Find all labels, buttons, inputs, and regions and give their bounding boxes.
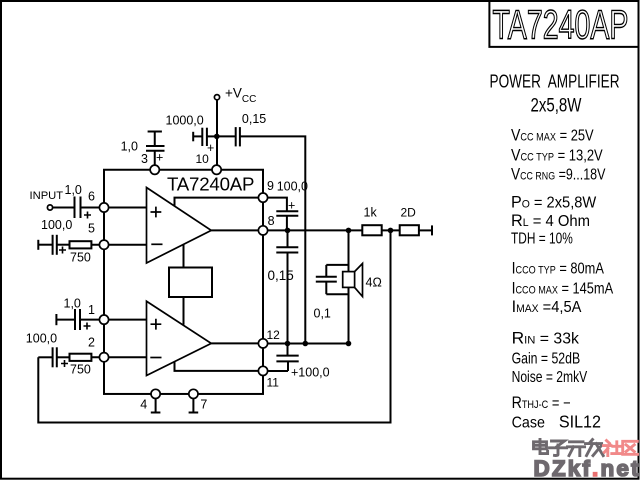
svg-text:2x5,8W: 2x5,8W — [531, 94, 582, 116]
svg-text:Noise = 2mkV: Noise = 2mkV — [512, 368, 588, 386]
svg-text:+: + — [288, 199, 295, 213]
svg-text:INPUT: INPUT — [30, 190, 64, 202]
svg-text:0,1: 0,1 — [314, 306, 331, 320]
svg-text:7: 7 — [200, 398, 207, 412]
svg-text:TA7240AP: TA7240AP — [167, 174, 255, 195]
svg-text:4Ω: 4Ω — [366, 275, 382, 289]
svg-text:0,15: 0,15 — [268, 268, 294, 283]
svg-text:VCC TYP = 13,2V: VCC TYP = 13,2V — [511, 147, 603, 165]
svg-text:2: 2 — [88, 336, 95, 350]
svg-text:Gain = 52dB: Gain = 52dB — [512, 349, 581, 367]
svg-text:9: 9 — [267, 179, 274, 193]
svg-text:0,15: 0,15 — [242, 112, 266, 126]
svg-text:VCC MAX = 25V: VCC MAX = 25V — [511, 126, 594, 144]
svg-text:1,0: 1,0 — [64, 297, 81, 311]
svg-text:2D: 2D — [401, 206, 417, 220]
svg-text:6: 6 — [88, 190, 95, 204]
svg-text:12: 12 — [267, 328, 281, 342]
svg-text:100,0: 100,0 — [277, 180, 308, 194]
svg-text:100,0: 100,0 — [26, 332, 57, 346]
svg-text:RL = 4 Ohm: RL = 4 Ohm — [511, 211, 590, 230]
svg-text:ICCO MAX = 145mA: ICCO MAX = 145mA — [512, 279, 614, 298]
svg-text:CC: CC — [242, 94, 256, 105]
svg-text:CaseSIL12: CaseSIL12 — [512, 412, 601, 432]
svg-text:5: 5 — [88, 222, 95, 236]
svg-text:ICCO TYP = 80mA: ICCO TYP = 80mA — [512, 259, 605, 278]
svg-text:+: + — [156, 151, 163, 165]
svg-text:PO = 2x5,8W: PO = 2x5,8W — [511, 192, 597, 212]
svg-text:RIN = 33k: RIN = 33k — [512, 328, 580, 348]
svg-text:TDH = 10%: TDH = 10% — [511, 229, 573, 247]
svg-text:RTHJ-C = −: RTHJ-C = − — [512, 394, 571, 412]
svg-text:1,0: 1,0 — [121, 140, 138, 154]
svg-text:750: 750 — [70, 363, 91, 377]
svg-text:IMAX =4,5A: IMAX =4,5A — [512, 296, 583, 316]
svg-text:1k: 1k — [364, 206, 378, 220]
svg-text:1: 1 — [88, 303, 95, 317]
svg-text:1000,0: 1000,0 — [166, 113, 204, 127]
svg-text:DZkf.net: DZkf.net — [534, 456, 640, 480]
svg-text:VCC RNG =9...18V: VCC RNG =9...18V — [511, 165, 606, 184]
svg-text:750: 750 — [70, 251, 91, 265]
svg-text:+: + — [207, 141, 214, 155]
svg-text:POWER AMPLIFIER: POWER AMPLIFIER — [490, 72, 620, 93]
svg-text:3: 3 — [141, 152, 148, 166]
svg-text:4: 4 — [140, 398, 147, 412]
svg-text:+100,0: +100,0 — [291, 366, 330, 380]
svg-text:+V: +V — [225, 86, 242, 101]
svg-text:100,0: 100,0 — [41, 218, 72, 232]
svg-text:TA7240AP: TA7240AP — [493, 2, 629, 47]
svg-text:8: 8 — [268, 214, 275, 228]
svg-text:11: 11 — [267, 375, 280, 389]
svg-text:1,0: 1,0 — [65, 183, 82, 197]
